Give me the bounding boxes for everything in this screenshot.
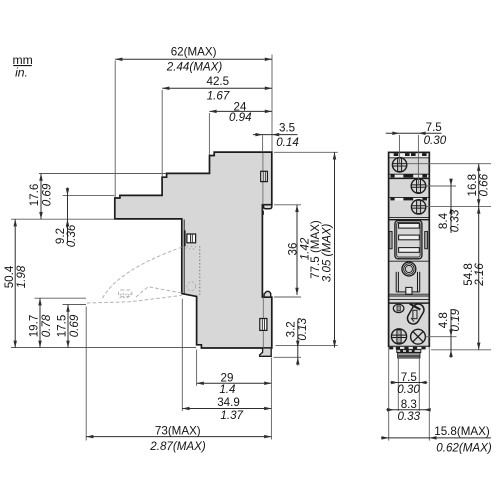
svg-text:62(MAX): 62(MAX)	[171, 45, 217, 58]
svg-text:3.05 (MAX): 3.05 (MAX)	[320, 223, 333, 282]
svg-text:50.4: 50.4	[3, 265, 16, 288]
svg-text:19.7: 19.7	[28, 315, 41, 338]
svg-text:2.16: 2.16	[473, 263, 486, 287]
svg-text:0.14: 0.14	[276, 136, 299, 149]
svg-text:0.78: 0.78	[40, 314, 53, 337]
svg-text:1.98: 1.98	[15, 265, 28, 288]
svg-text:7.5: 7.5	[426, 121, 442, 134]
svg-text:0.30: 0.30	[424, 134, 447, 147]
svg-text:0.19: 0.19	[449, 308, 462, 331]
svg-text:8.3: 8.3	[401, 398, 417, 411]
svg-text:17.5: 17.5	[56, 315, 69, 338]
svg-text:0.69: 0.69	[68, 314, 81, 337]
svg-text:1.67: 1.67	[207, 89, 230, 102]
svg-text:2.44(MAX): 2.44(MAX)	[166, 61, 223, 74]
svg-text:0.62(MAX): 0.62(MAX)	[436, 441, 492, 454]
svg-text:0.33: 0.33	[449, 209, 462, 232]
svg-text:2.87(MAX): 2.87(MAX)	[149, 440, 206, 453]
svg-text:0.94: 0.94	[229, 111, 252, 124]
svg-text:1.4: 1.4	[219, 383, 236, 396]
svg-text:73(MAX): 73(MAX)	[155, 425, 201, 438]
svg-text:17.6: 17.6	[28, 184, 41, 207]
svg-text:0.33: 0.33	[398, 410, 421, 423]
svg-text:0.36: 0.36	[65, 224, 78, 247]
svg-text:15.8(MAX): 15.8(MAX)	[434, 425, 490, 438]
svg-text:42.5: 42.5	[207, 75, 230, 88]
svg-text:0.30: 0.30	[397, 383, 420, 396]
svg-text:3.5: 3.5	[279, 122, 295, 135]
svg-text:in.: in.	[15, 66, 28, 80]
svg-text:0.13: 0.13	[296, 317, 309, 340]
svg-text:0.66: 0.66	[477, 173, 490, 196]
svg-text:7.5: 7.5	[401, 371, 417, 384]
svg-text:0.69: 0.69	[41, 183, 54, 206]
svg-text:1.37: 1.37	[220, 409, 243, 422]
svg-text:34.9: 34.9	[217, 396, 240, 409]
